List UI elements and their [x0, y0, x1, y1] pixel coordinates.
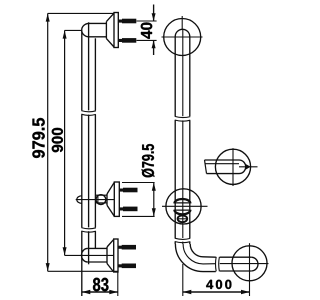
- label 83: [93, 278, 109, 291]
- bottom post stub tube: [88, 248, 107, 262]
- bottom post screw 2: [118, 264, 136, 269]
- top post wall plate: [114, 13, 118, 48]
- middle post screw 2: [120, 207, 138, 212]
- right top flange circle: [164, 19, 201, 56]
- right middle flange circle: [166, 189, 201, 224]
- label 979.5: [32, 118, 44, 158]
- left tube lower break joint: [81, 228, 96, 233]
- right end flange circle: [232, 246, 267, 281]
- bottom post dome end: [81, 248, 87, 262]
- elbow outer arc: [175, 244, 215, 272]
- extension line bottom 979.5: [48, 270, 118, 272]
- bottom post wall plate: [114, 239, 118, 272]
- extension line 400 left: [182, 264, 184, 296]
- right end flange vertical crosshair: [249, 243, 251, 296]
- label 400: [206, 280, 231, 289]
- middle post knob: [77, 196, 82, 204]
- left tube left line: [81, 30, 83, 110]
- horizontal tube dome end: [251, 257, 258, 271]
- top post stub tube: [89, 23, 106, 36]
- extension line 83 right: [117, 272, 119, 296]
- dimension 40: [152, 5, 156, 56]
- bottom post screw 1: [118, 245, 136, 250]
- bottom post flange cone: [107, 239, 114, 272]
- right middle flange screw head: [178, 215, 188, 222]
- detail view vertical crosshair: [232, 148, 234, 186]
- right middle flange horizontal crosshair: [162, 205, 208, 207]
- extension line top 979.5: [48, 12, 114, 14]
- left tube centerline: [88, 22, 90, 110]
- detail view circle: [215, 149, 250, 184]
- right tube upper break joint: [175, 116, 191, 121]
- dimension 83: [82, 290, 118, 294]
- right middle flange collar: [174, 199, 190, 214]
- dimension 900 line: [63, 30, 67, 255]
- right tube dome top: [175, 29, 190, 36]
- extension line top 900: [65, 29, 82, 31]
- elbow centerline arc: [183, 244, 216, 264]
- extension line bottom 900 / stub centerline: [65, 254, 114, 256]
- left tube right line: [94, 38, 96, 110]
- horizontal tube centerline: [220, 263, 269, 265]
- detail view pointer arrow: [246, 164, 251, 170]
- middle post screw 1: [120, 188, 138, 193]
- right top flange vertical crosshair: [181, 16, 183, 30]
- detail view tube dome end: [239, 160, 246, 174]
- right tube centerline: [182, 30, 184, 116]
- extension lines for 40: [137, 21, 157, 40]
- horizontal tube top line: [220, 256, 252, 258]
- left tube upper break joint: [81, 111, 96, 116]
- label Ø79.5: [142, 144, 155, 177]
- label 40: [141, 23, 152, 39]
- dimension 400: [183, 290, 250, 294]
- middle post clamp: [95, 195, 107, 205]
- middle post flange cone: [107, 182, 114, 216]
- detail view pointer line: [239, 166, 258, 168]
- dimension Ø79.5 extension top: [122, 182, 155, 184]
- label 900: [52, 128, 63, 152]
- right tube left line: [174, 37, 176, 117]
- middle post centerline: [76, 199, 115, 201]
- horizontal tube bottom line: [220, 270, 252, 272]
- top post screw 1: [118, 19, 136, 24]
- right tube right line: [189, 37, 191, 117]
- dimension Ø79.5: [152, 183, 156, 217]
- dimension Ø79.5 extension bottom: [122, 215, 155, 217]
- elbow inner arc: [190, 244, 216, 257]
- top post screw 2: [118, 38, 136, 43]
- middle post wall plate: [114, 182, 119, 216]
- right top flange horizontal crosshair: [162, 36, 203, 38]
- right tube lower break joint: [175, 238, 191, 243]
- top post dome end: [82, 23, 89, 36]
- horizontal tube joint: [216, 257, 220, 272]
- detail view tube: [205, 160, 240, 174]
- dimension 979.5 line: [46, 13, 50, 271]
- top post flange cone: [106, 13, 114, 47]
